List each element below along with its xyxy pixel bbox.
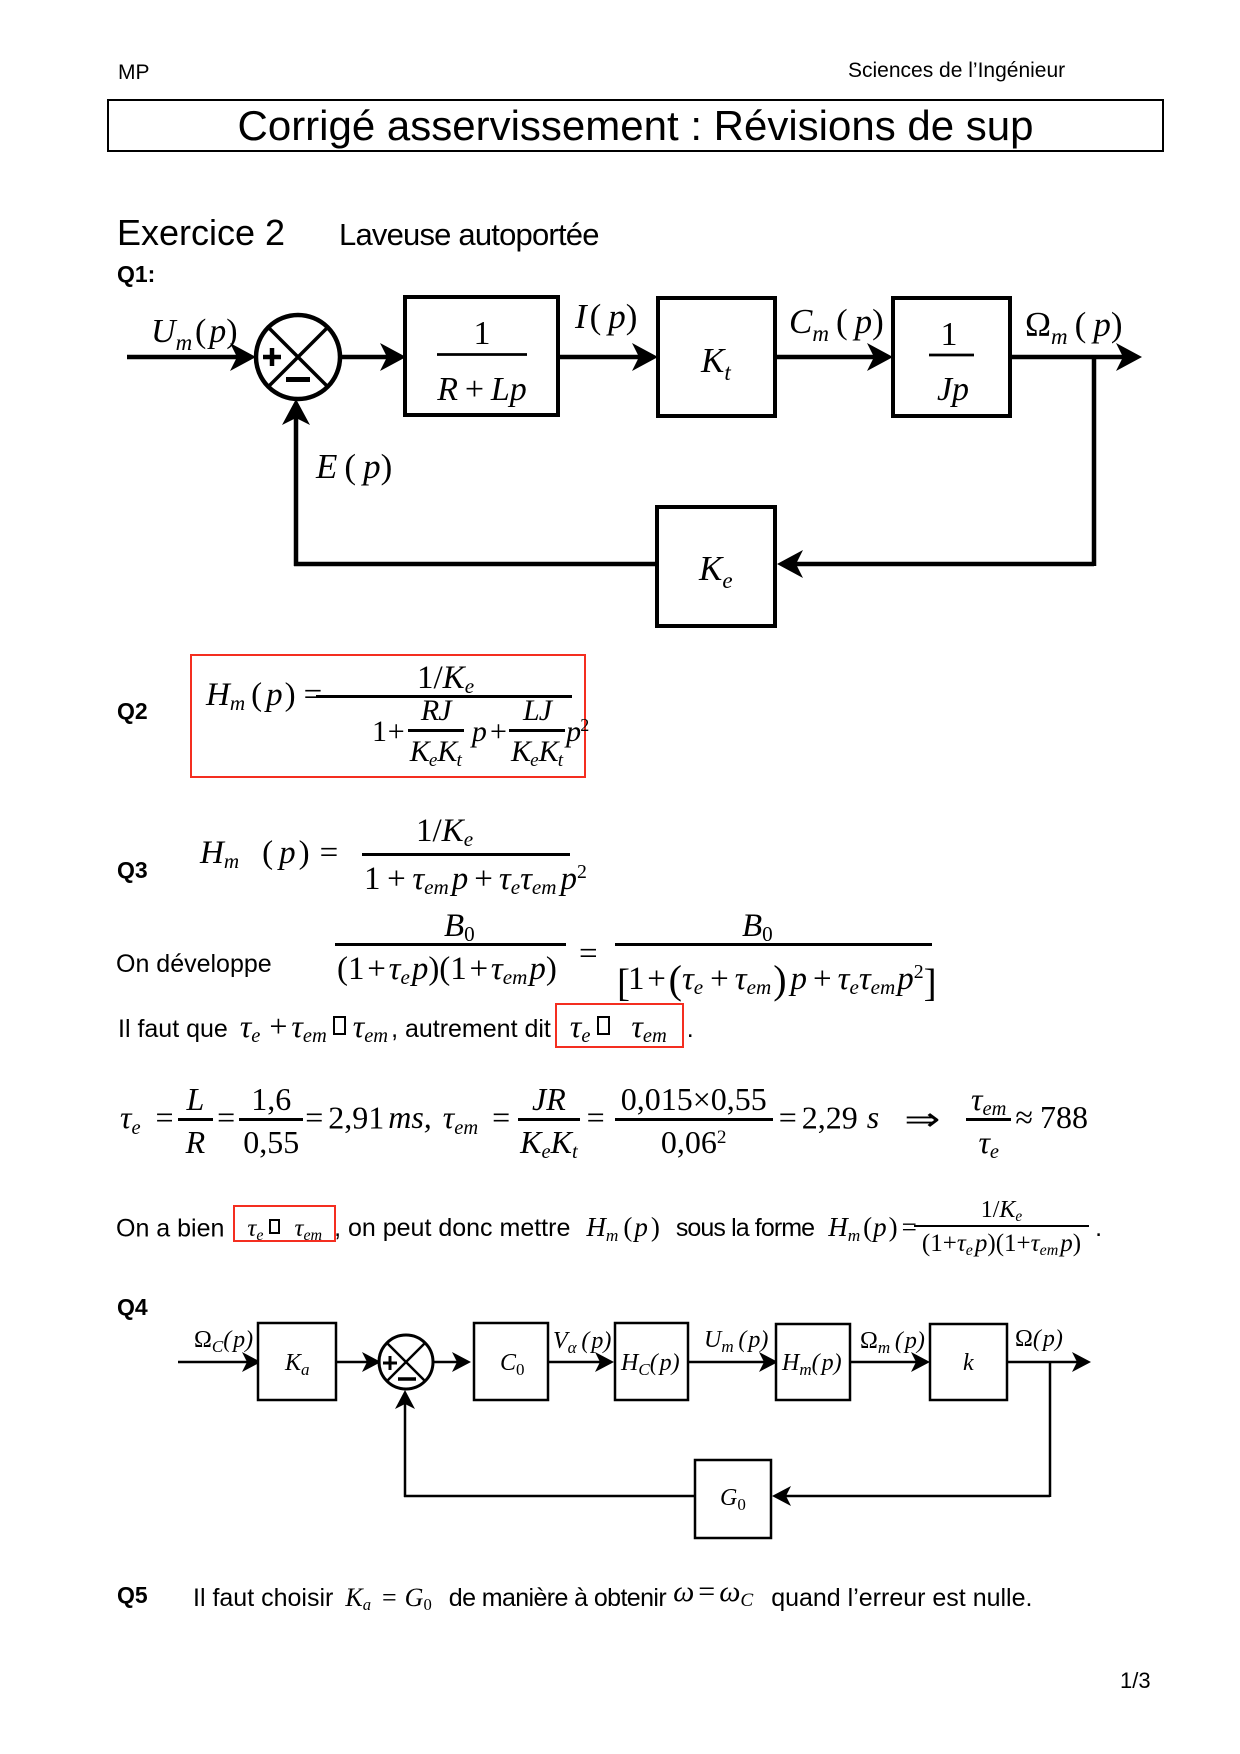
Q2 denominator bbox=[372, 694, 588, 770]
label I(p) bbox=[574, 297, 637, 336]
svg-text:k: k bbox=[963, 1350, 974, 1376]
wire: Ka to summing junction S2 bbox=[336, 1352, 381, 1372]
On développe bbox=[116, 950, 272, 979]
label U_m(p) bbox=[151, 313, 238, 355]
Q2 numerator 1/K_e bbox=[417, 662, 474, 695]
On a bien ... bbox=[116, 1199, 1102, 1260]
block 1/(R+Lp) bbox=[405, 297, 558, 415]
wire: G0 back to S2 bbox=[395, 1390, 695, 1497]
numeric line: tau_e = L/R ... bbox=[120, 1081, 1088, 1161]
svg-text:1: 1 bbox=[941, 316, 958, 353]
Q3 formula: H_m(p) = bbox=[200, 837, 338, 870]
label V_alpha(p) bbox=[553, 1328, 611, 1357]
développe: denominator (left fraction) bbox=[337, 953, 557, 986]
label Omega_m(p) bbox=[1025, 305, 1122, 349]
wire: input to summing junction bbox=[127, 343, 256, 371]
wire: Ke back to S1 bbox=[282, 399, 657, 566]
block Hm(p) bbox=[776, 1324, 850, 1400]
summing junction S1 bbox=[256, 315, 340, 399]
svg-text:R + Lp: R + Lp bbox=[436, 371, 527, 408]
svg-text:Hm( p): Hm( p) bbox=[781, 1350, 842, 1379]
minus sign of S2 bbox=[398, 1377, 416, 1381]
développe: equals sign bbox=[579, 938, 598, 971]
svg-text:Um ( p): Um ( p) bbox=[704, 1327, 768, 1356]
développe: numerator B_0 (right) bbox=[742, 910, 773, 943]
svg-text:HC( p): HC( p) bbox=[620, 1350, 680, 1379]
plus sign of S2 bbox=[383, 1356, 397, 1370]
svg-text:Um ( p): Um ( p) bbox=[151, 313, 238, 355]
développe: bar (left fraction) bbox=[335, 943, 566, 946]
développe: bar (right fraction) bbox=[615, 943, 932, 946]
svg-text:Jp: Jp bbox=[937, 371, 969, 408]
svg-text:ΩC( p): ΩC( p) bbox=[194, 1327, 253, 1356]
Q3 denominator bbox=[364, 863, 587, 896]
Q4 label bbox=[117, 1294, 148, 1321]
Q5 line bbox=[193, 1580, 1032, 1614]
heading Laveuse autoportée bbox=[339, 217, 599, 253]
wire: C0 to HC bbox=[548, 1352, 614, 1372]
minus sign of S1 bbox=[286, 377, 310, 382]
label Omega_m(p) bbox=[860, 1328, 925, 1357]
svg-text:Cm ( p): Cm ( p) bbox=[789, 302, 884, 346]
wire: feedback into Ke (right side) bbox=[777, 550, 1094, 578]
label Omega_C(p) bbox=[194, 1327, 253, 1356]
header left: MP bbox=[118, 61, 150, 85]
block Ke bbox=[657, 507, 775, 626]
développe: denominator (right fraction) bbox=[617, 960, 935, 1003]
Il faut que ... bbox=[118, 1008, 694, 1045]
wire: output with arrow bbox=[1007, 1352, 1091, 1372]
svg-text:1: 1 bbox=[474, 315, 491, 352]
plus sign of S1 bbox=[263, 348, 281, 366]
red box around tau_e << tau_em (small) bbox=[233, 1205, 336, 1242]
block C0 bbox=[474, 1323, 548, 1400]
Q2 red box bbox=[190, 654, 586, 778]
Q2 formula: H_m(p) = bbox=[206, 679, 322, 712]
développe: numerator B_0 (left) bbox=[444, 910, 475, 943]
Q5 label bbox=[117, 1582, 148, 1609]
wire: Hm to k bbox=[850, 1352, 930, 1372]
Q2 label bbox=[117, 698, 148, 725]
wire: branch down from output node bbox=[1049, 1362, 1052, 1497]
wire: output with arrow bbox=[1010, 343, 1142, 371]
wire: branch down from output node bbox=[1092, 357, 1097, 566]
svg-text:Ω( p): Ω( p) bbox=[1015, 1326, 1063, 1352]
header right: Sciences de l'Ingénieur bbox=[848, 59, 1065, 83]
block 1/Jp bbox=[893, 298, 1010, 416]
wire: S2 to C0 bbox=[433, 1352, 471, 1372]
block HC(p) bbox=[615, 1323, 688, 1400]
page number bbox=[1120, 1668, 1151, 1694]
block Ka bbox=[258, 1323, 336, 1400]
label U_m(p) bbox=[704, 1327, 768, 1356]
svg-text:E ( p): E ( p) bbox=[315, 447, 392, 486]
Q3 numerator 1/K_e bbox=[416, 815, 473, 848]
red box around tau_e << tau_em bbox=[555, 1003, 684, 1048]
label Omega(p) bbox=[1015, 1326, 1063, 1352]
wire: input to Ka bbox=[178, 1352, 261, 1372]
summing junction S2 bbox=[379, 1335, 433, 1389]
label E(p) bbox=[315, 447, 392, 486]
wire: Kt to 1/Jp bbox=[775, 343, 893, 371]
Q3 fraction bar bbox=[362, 853, 570, 856]
Q1 label bbox=[117, 261, 155, 288]
Q2 fraction bar bbox=[316, 695, 572, 698]
svg-text:Ωm ( p): Ωm ( p) bbox=[860, 1328, 925, 1357]
wire: feedback into G0 (right side) bbox=[772, 1486, 1050, 1506]
svg-text:Ωm ( p): Ωm ( p) bbox=[1025, 305, 1122, 349]
block Kt bbox=[658, 298, 775, 416]
title box bbox=[107, 99, 1164, 152]
block k bbox=[930, 1324, 1007, 1400]
block G0 bbox=[695, 1460, 771, 1538]
wire: S1 to block 1/(R+Lp) bbox=[340, 343, 406, 371]
Q3 label bbox=[117, 857, 148, 884]
heading Exercice 2 bbox=[117, 212, 285, 254]
wire: block1 to Kt bbox=[558, 343, 658, 371]
svg-text:I ( p): I ( p) bbox=[574, 297, 637, 336]
label C_m(p) bbox=[789, 302, 884, 346]
wire: HC to Hm bbox=[688, 1352, 778, 1372]
svg-text:Vα ( p): Vα ( p) bbox=[553, 1328, 611, 1357]
